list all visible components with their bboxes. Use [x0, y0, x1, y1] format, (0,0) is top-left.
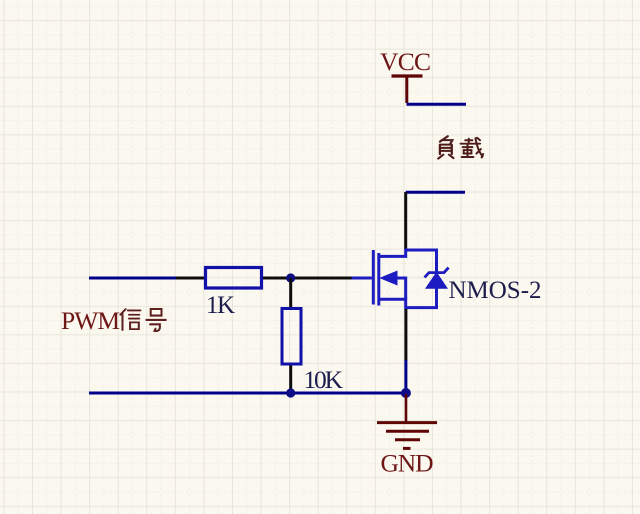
- power symbol VCC: [392, 76, 423, 103]
- wire ground rail: [89, 392, 406, 395]
- svg-text:GND: GND: [381, 449, 434, 478]
- resistor R2: [282, 278, 301, 393]
- wire source to ground: [404, 360, 407, 393]
- svg-text:10K: 10K: [304, 365, 344, 394]
- wire gate link (black): [176, 277, 352, 280]
- junction node A: [286, 273, 295, 282]
- power symbol GND: [377, 394, 437, 448]
- resistor R1: [206, 268, 262, 289]
- junction node GND: [401, 388, 411, 398]
- wire source vertical (black): [404, 309, 407, 361]
- junction node B: [286, 388, 295, 397]
- wire PWM input: [89, 277, 177, 280]
- transistor Q1 NMOS: [351, 250, 449, 308]
- svg-text:PWM: PWM: [61, 306, 120, 335]
- wire VCC to load: [407, 103, 467, 106]
- svg-text:NMOS-2: NMOS-2: [449, 277, 542, 304]
- wire drain vertical: [404, 192, 407, 249]
- wire load to drain: [406, 191, 465, 194]
- label 负载 (load): [438, 136, 483, 158]
- svg-text:VCC: VCC: [380, 47, 431, 76]
- svg-text:1K: 1K: [206, 292, 235, 319]
